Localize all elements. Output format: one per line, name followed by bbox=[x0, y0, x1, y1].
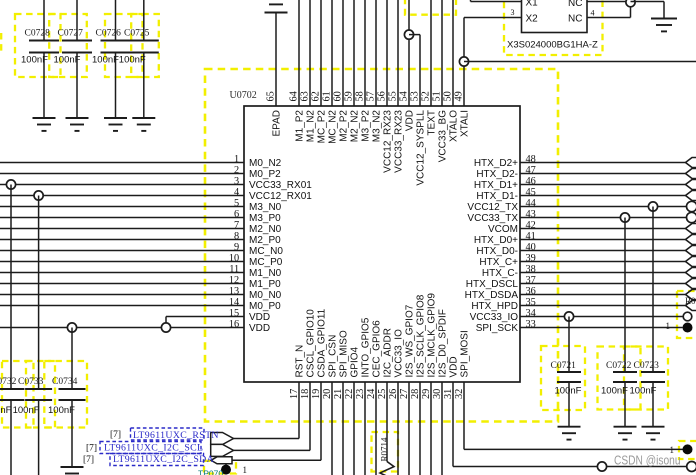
crystal pin label X1 bbox=[526, 0, 539, 8]
pin name M0_N0 (pin 13) bbox=[249, 290, 282, 301]
svg-text:1: 1 bbox=[243, 465, 248, 475]
svg-text:28: 28 bbox=[410, 389, 421, 399]
svg-text:M1_P0: M1_P0 bbox=[249, 279, 281, 290]
svg-text:I2S_SCLK_GPIO8: I2S_SCLK_GPIO8 bbox=[416, 294, 427, 377]
pin name M2_P2 (pin 60) bbox=[339, 110, 350, 142]
wire pin 12 M1_P0 bbox=[0, 283, 244, 285]
svg-text:4: 4 bbox=[591, 8, 595, 17]
svg-text:VCC12_TX: VCC12_TX bbox=[467, 202, 518, 213]
pin number 45 bbox=[526, 187, 536, 198]
svg-text:I2C_ADDR: I2C_ADDR bbox=[383, 328, 394, 377]
junction pin 54 VDD bbox=[404, 30, 413, 39]
wire pin 61 MC_N2 bbox=[331, 0, 333, 106]
pin number 11 bbox=[229, 264, 239, 275]
pin name VCC12_RX01 (pin 4) bbox=[249, 191, 312, 202]
junction VDD bottom bbox=[597, 462, 606, 471]
svg-text:M3_P0: M3_P0 bbox=[249, 213, 281, 224]
wire pin 19 CSDA_GPIO11 bbox=[233, 382, 322, 460]
svg-text:I2S_D0_SPDIF: I2S_D0_SPDIF bbox=[438, 309, 449, 377]
svg-text:M3_N2: M3_N2 bbox=[372, 110, 383, 143]
svg-text:C0732: C0732 bbox=[0, 377, 17, 387]
capacitor C0726 bbox=[96, 29, 131, 53]
junction pin15/pin16 VDD bbox=[161, 323, 170, 332]
crystal part label X3S024000BG1HA-Z bbox=[507, 40, 598, 51]
value label C0721 100nF bbox=[555, 386, 582, 397]
pin number 49 bbox=[454, 91, 465, 101]
pin number 37 bbox=[526, 275, 536, 286]
net box LT9611UXC_I2C_SDA bbox=[110, 454, 204, 466]
pin name VCC33_IO (pin 34) bbox=[470, 312, 519, 323]
value label C0725 100nF bbox=[119, 55, 146, 66]
group box testpoint right edge bbox=[679, 441, 696, 459]
svg-text:M2_N2: M2_N2 bbox=[350, 110, 361, 143]
svg-text:9: 9 bbox=[234, 242, 239, 253]
wire pin 40 HTX_D0- bbox=[520, 250, 686, 252]
svg-text:VCC12_SYSPLL: VCC12_SYSPLL bbox=[416, 110, 427, 186]
pin name HTX_D1- (pin 45) bbox=[476, 191, 518, 202]
crystal pin number 3 bbox=[511, 8, 515, 17]
group box resistor R07xx right edge bbox=[677, 291, 696, 338]
wire pin 47 HTX_D2- bbox=[520, 173, 686, 175]
svg-text:C0721: C0721 bbox=[551, 361, 577, 371]
value label C0723 100nF bbox=[630, 386, 657, 397]
svg-text:VDD: VDD bbox=[249, 312, 270, 323]
pin number 23 bbox=[355, 389, 366, 399]
wire pin 62 MC_P2 bbox=[320, 0, 322, 106]
svg-text:GPIO4: GPIO4 bbox=[350, 346, 361, 377]
pin name M0_P2 (pin 2) bbox=[249, 169, 281, 180]
pin number 51 bbox=[432, 91, 443, 101]
crystal X1 body bbox=[522, 0, 588, 33]
pin number 1 bbox=[234, 154, 239, 165]
svg-text:46: 46 bbox=[526, 176, 536, 187]
pin name HTX_DSDA (pin 36) bbox=[465, 290, 519, 301]
svg-text:100nF: 100nF bbox=[601, 386, 628, 397]
pin name XTALI (pin 49) bbox=[460, 110, 471, 137]
pin name SPI_CSN (pin 20) bbox=[328, 335, 339, 378]
wire pin 48 HTX_D2+ bbox=[520, 162, 686, 164]
svg-text:C0728: C0728 bbox=[25, 29, 51, 39]
wire pin 14 M0_P0 bbox=[0, 305, 244, 307]
svg-text:CSDA_GPIO11: CSDA_GPIO11 bbox=[317, 308, 328, 377]
svg-text:63: 63 bbox=[300, 91, 311, 101]
svg-text:45: 45 bbox=[526, 187, 536, 198]
ground symbol under C0725 bbox=[132, 118, 155, 131]
svg-text:SPI_CSN: SPI_CSN bbox=[328, 335, 339, 378]
off-page connector HTX_DSDA bbox=[686, 290, 696, 300]
svg-text:VDD: VDD bbox=[449, 356, 460, 377]
svg-text:HTX_DSCL: HTX_DSCL bbox=[466, 279, 519, 290]
svg-text:X1: X1 bbox=[526, 0, 539, 8]
pin name M3_N0 (pin 5) bbox=[249, 202, 282, 213]
svg-text:C0733: C0733 bbox=[18, 377, 44, 387]
net box LT9611UXC_I2C_SCL bbox=[100, 442, 201, 454]
pin name VDD (pin 16) bbox=[249, 323, 270, 334]
svg-text:26: 26 bbox=[388, 389, 399, 399]
svg-text:MC_N0: MC_N0 bbox=[249, 246, 283, 257]
pin number 55 bbox=[388, 91, 399, 101]
junction XTALI net bbox=[459, 57, 468, 66]
off-page connector VCOM bbox=[686, 224, 696, 234]
svg-text:SPI_SCK: SPI_SCK bbox=[476, 323, 519, 334]
pin number 21 bbox=[333, 389, 344, 399]
svg-text:LT9611UXC_I2C_SCL: LT9611UXC_I2C_SCL bbox=[104, 443, 203, 454]
wire pin 56 VCC12_RX23 bbox=[386, 0, 388, 106]
wire pin 24 CEC_GPIO6 bbox=[375, 382, 377, 475]
svg-text:65: 65 bbox=[266, 91, 277, 101]
off-page connector HTX_D2- bbox=[686, 169, 696, 179]
group box top-center power pins bbox=[405, 0, 456, 15]
svg-text:51: 51 bbox=[432, 91, 443, 101]
wire pin 28 I2S_SCLK_GPIO8 bbox=[419, 382, 421, 475]
wire pin 1 M0_N2 bbox=[0, 162, 244, 164]
wire pin 45 HTX_D1- bbox=[520, 195, 686, 197]
wire pin 41 HTX_D0+ bbox=[520, 239, 686, 241]
testpoint SPI_SCK pin 1 bbox=[666, 321, 671, 331]
svg-text:57: 57 bbox=[366, 91, 377, 101]
wire pin 29 I2S_MCLK_GPIO9 bbox=[430, 382, 432, 475]
svg-text:1: 1 bbox=[234, 154, 239, 165]
wire C0734 down bbox=[71, 400, 73, 467]
pin number 20 bbox=[322, 389, 333, 399]
pin number 35 bbox=[526, 297, 536, 308]
svg-text:27: 27 bbox=[399, 389, 410, 399]
pin number 12 bbox=[229, 275, 239, 286]
junction pin 16 VDD bbox=[67, 323, 76, 332]
pin name HTX_DSCL (pin 37) bbox=[466, 279, 519, 290]
svg-text:1: 1 bbox=[666, 321, 671, 331]
wire pin 3 VCC33_RX01 bbox=[0, 184, 244, 186]
wire pin 38 HTX_C- bbox=[520, 272, 686, 274]
svg-text:I2S_WS_GPIO7: I2S_WS_GPIO7 bbox=[405, 304, 416, 377]
capacitor C0727 bbox=[58, 29, 93, 53]
pin number 38 bbox=[526, 264, 536, 275]
pin name MC_P0 (pin 10) bbox=[249, 257, 283, 268]
pin name CSDA_GPIO11 (pin 19) bbox=[317, 308, 328, 377]
svg-text:61: 61 bbox=[322, 91, 333, 101]
svg-text:TP070: TP070 bbox=[198, 468, 223, 475]
pin name MC_N2 (pin 61) bbox=[328, 110, 339, 144]
pin name VCOM (pin 42) bbox=[488, 224, 518, 235]
svg-text:M1_P2: M1_P2 bbox=[295, 110, 306, 142]
wire pin 36 HTX_DSDA bbox=[520, 294, 686, 296]
pin name HTX_HPD (pin 35) bbox=[471, 301, 518, 312]
junction NC net bbox=[626, 0, 635, 7]
pin name SPI_MISO (pin 21) bbox=[339, 330, 350, 377]
pin number 36 bbox=[526, 286, 536, 297]
wire VCC33_TX to C0722 bbox=[624, 218, 626, 373]
wire pin 2 M0_P2 bbox=[0, 173, 244, 175]
svg-text:58: 58 bbox=[355, 91, 366, 101]
svg-text:M3_N0: M3_N0 bbox=[249, 202, 282, 213]
pin number 52 bbox=[421, 91, 432, 101]
pin name HTX_D0+ (pin 41) bbox=[474, 235, 518, 246]
wire to capacitor C0727 bbox=[76, 0, 78, 41]
svg-text:18: 18 bbox=[300, 389, 311, 399]
svg-text:HTX_D2+: HTX_D2+ bbox=[474, 158, 518, 169]
svg-text:55: 55 bbox=[388, 91, 399, 101]
value label C0722 100nF bbox=[601, 386, 628, 397]
svg-text:M2_N0: M2_N0 bbox=[249, 224, 282, 235]
pin name VCC33_RX01 (pin 3) bbox=[249, 180, 312, 191]
wire VDD to C0734 bbox=[71, 328, 73, 390]
pin number 60 bbox=[333, 91, 344, 101]
capacitor C0733 bbox=[18, 377, 52, 400]
off-page flag LT9611UXC_I2C_SCL bbox=[211, 444, 234, 456]
svg-text:41: 41 bbox=[526, 231, 536, 242]
svg-text:XTALO: XTALO bbox=[449, 110, 460, 142]
wire pin 46 HTX_D1+ bbox=[520, 184, 686, 186]
pin number 57 bbox=[366, 91, 377, 101]
pin number 53 bbox=[410, 91, 421, 101]
svg-text:3: 3 bbox=[511, 8, 515, 17]
wire VCC33_IO to C0721 bbox=[568, 317, 570, 373]
pin number 64 bbox=[289, 91, 300, 101]
wire C0721 to ground bbox=[568, 382, 570, 427]
pin number 4 bbox=[234, 187, 239, 198]
svg-text:59: 59 bbox=[344, 91, 355, 101]
testpoint TP070 pin 1 bbox=[243, 465, 248, 475]
wire pin 50 XTALO bbox=[452, 0, 454, 106]
wire pin 23 INTO_GPIO5 bbox=[364, 382, 366, 475]
wire pin 30 I2S_D0_SPDIF bbox=[441, 382, 443, 475]
wire pin 59 M2_N2 bbox=[353, 0, 355, 106]
group box bottom-left caps C0733 bbox=[26, 361, 55, 428]
pin number 50 bbox=[443, 91, 454, 101]
value label C0728 100nF bbox=[21, 55, 48, 66]
off-page connector HTX_DSCL bbox=[686, 279, 696, 289]
pin name M1_N2 (pin 63) bbox=[306, 110, 317, 143]
svg-text:42: 42 bbox=[526, 220, 536, 231]
svg-text:100nF: 100nF bbox=[119, 55, 146, 66]
wire pin 9 MC_N0 bbox=[0, 250, 244, 252]
svg-text:54: 54 bbox=[399, 91, 410, 101]
svg-text:100nF: 100nF bbox=[0, 405, 12, 416]
wire pin 4 VCC12_RX01 bbox=[0, 195, 244, 197]
off-page connector HTX_D2+ bbox=[686, 158, 696, 168]
svg-text:INTO_GPIO5: INTO_GPIO5 bbox=[361, 317, 372, 377]
off-page connector HTX_C+ bbox=[686, 257, 696, 267]
pin name VCC12_SYSPLL (pin 53) bbox=[416, 110, 427, 186]
sheet ref [7] SCL bbox=[86, 444, 97, 454]
pin name VDD (pin 54) bbox=[405, 110, 416, 131]
svg-text:49: 49 bbox=[454, 91, 465, 101]
pin number 10 bbox=[229, 253, 239, 264]
group box caps C0722 bbox=[598, 347, 641, 410]
svg-text:40: 40 bbox=[526, 242, 536, 253]
pin name M3_P2 (pin 58) bbox=[361, 110, 372, 142]
wire C0727 to ground bbox=[76, 53, 78, 119]
pin name MC_N0 (pin 9) bbox=[249, 246, 283, 257]
off-page flag LT9611UXC_I2C_SDA bbox=[211, 457, 232, 464]
svg-text:M1_N0: M1_N0 bbox=[249, 268, 282, 279]
ground symbol under C0726 bbox=[104, 118, 127, 131]
junction pin 43 VCC33_TX bbox=[620, 213, 629, 222]
off-page circle VDD bottom right bbox=[687, 462, 696, 472]
junction pin 34 VCC33_IO bbox=[564, 312, 573, 321]
svg-text:11: 11 bbox=[229, 264, 239, 275]
pin name M2_N2 (pin 59) bbox=[350, 110, 361, 143]
group box caps C0723 bbox=[624, 347, 668, 410]
off-page connector HTX_D1- bbox=[686, 191, 696, 201]
wire C0726 to ground bbox=[115, 53, 117, 119]
wire to capacitor C0725 bbox=[143, 0, 145, 41]
svg-text:NC: NC bbox=[568, 0, 582, 9]
pin name I2S_WS_GPIO7 (pin 27) bbox=[405, 304, 416, 377]
pin number 22 bbox=[344, 389, 355, 399]
testpoint SPI_MOSI pad bbox=[683, 444, 693, 454]
svg-text:C0726: C0726 bbox=[96, 29, 122, 39]
wire pin 20 SPI_CSN bbox=[331, 382, 333, 475]
wire XTALI off-page bbox=[464, 61, 696, 63]
capacitor C0722 bbox=[606, 361, 637, 382]
crystal pin label NC top bbox=[568, 0, 582, 9]
svg-text:100nF: 100nF bbox=[555, 386, 582, 397]
svg-text:VCC33_IO: VCC33_IO bbox=[470, 312, 519, 323]
pin name I2C_ADDR (pin 25) bbox=[383, 328, 394, 377]
resistor R07xx label right edge bbox=[685, 296, 696, 306]
wire pin 64 M1_P2 bbox=[298, 0, 300, 106]
crystal pin label NC bottom bbox=[568, 13, 582, 24]
svg-text:50: 50 bbox=[443, 91, 454, 101]
svg-text:VCC33_RX01: VCC33_RX01 bbox=[249, 180, 312, 191]
pin number 7 bbox=[234, 220, 239, 231]
group box cap C0721 bbox=[541, 346, 585, 410]
wire pin 11 M1_N0 bbox=[0, 272, 244, 274]
capacitor C0723 bbox=[634, 361, 666, 382]
pin number 15 bbox=[229, 308, 239, 319]
pin number 31 bbox=[443, 389, 454, 399]
svg-text:HTX_D0-: HTX_D0- bbox=[476, 246, 518, 257]
wire pin 32 SPI_MOSI bbox=[464, 382, 683, 449]
pin number 47 bbox=[526, 165, 536, 176]
svg-text:22: 22 bbox=[344, 389, 355, 399]
pin name M0_N2 (pin 1) bbox=[249, 158, 282, 169]
pin number 34 bbox=[526, 308, 536, 319]
capacitor C0721 bbox=[551, 361, 582, 382]
pin name HTX_D2- (pin 47) bbox=[476, 169, 518, 180]
svg-text:HTX_C+: HTX_C+ bbox=[479, 257, 518, 268]
wire X1 pin 1 bbox=[471, 0, 522, 2]
pin number 46 bbox=[526, 176, 536, 187]
pin name I2S_SCLK_GPIO8 (pin 28) bbox=[416, 294, 427, 377]
svg-text:HTX_D1-: HTX_D1- bbox=[476, 191, 518, 202]
wire pin 58 M3_P2 bbox=[364, 0, 366, 106]
svg-text:23: 23 bbox=[355, 389, 366, 399]
off-page circle pin 43 bbox=[687, 212, 696, 222]
pin name VDD (pin 15) bbox=[249, 312, 270, 323]
wire pin 15 VDD bbox=[166, 316, 244, 318]
pin number 54 bbox=[399, 91, 410, 101]
pin number 42 bbox=[526, 220, 536, 231]
capacitor C0725 bbox=[124, 29, 159, 53]
pin name M2_P0 (pin 8) bbox=[249, 235, 281, 246]
svg-text:25: 25 bbox=[377, 389, 388, 399]
svg-text:VDD: VDD bbox=[405, 110, 416, 131]
svg-text:C0723: C0723 bbox=[634, 361, 660, 371]
pin number 3 bbox=[234, 176, 239, 187]
svg-text:24: 24 bbox=[366, 389, 377, 399]
wire pin 52 TEXT bbox=[430, 0, 432, 106]
resistor R0714 bbox=[379, 437, 394, 475]
pin name HTX_D0- (pin 40) bbox=[476, 246, 518, 257]
wire VCC12_RX01 to C0733 bbox=[38, 196, 40, 390]
svg-text:CSDN @isonu: CSDN @isonu bbox=[614, 452, 681, 467]
pin name TEXT (pin 52) bbox=[427, 110, 438, 136]
group box around IC U0702 bbox=[205, 69, 558, 422]
pin name VCC33_IO (pin 26) bbox=[394, 329, 405, 378]
svg-text:15: 15 bbox=[229, 308, 239, 319]
svg-text:U0702: U0702 bbox=[230, 90, 257, 101]
group box bottom-left caps C0734 bbox=[44, 361, 87, 428]
wire C0728 to ground bbox=[43, 53, 45, 119]
pin name SPI_MOSI (pin 32) bbox=[460, 330, 471, 377]
off-page connector HTX_D0- bbox=[686, 246, 696, 256]
svg-text:100nF: 100nF bbox=[13, 405, 40, 416]
svg-text:13: 13 bbox=[229, 286, 239, 297]
svg-text:48: 48 bbox=[526, 154, 536, 165]
ground symbol under C0721 bbox=[558, 427, 581, 440]
pin number 63 bbox=[300, 91, 311, 101]
sheet ref [7] RSTN bbox=[110, 430, 121, 440]
pin number 41 bbox=[526, 231, 536, 242]
wire pin 33 SPI_SCK bbox=[520, 327, 683, 329]
wire pin 7 M2_N0 bbox=[0, 228, 244, 230]
wire pin 39 HTX_C+ bbox=[520, 261, 686, 263]
wire pin 13 M0_N0 bbox=[0, 294, 244, 296]
group box resistor R0714 bbox=[372, 432, 399, 472]
wire pin 54 VDD bbox=[408, 0, 410, 106]
wire pin 43 VCC33_TX bbox=[520, 217, 687, 219]
pin number 25 bbox=[377, 389, 388, 399]
pin number 27 bbox=[399, 389, 410, 399]
svg-text:LT9611UXC_I2C_SDA: LT9611UXC_I2C_SDA bbox=[113, 454, 214, 465]
wire pin 6 M3_P0 bbox=[0, 217, 244, 219]
resistor R07xx pin circle bbox=[683, 312, 692, 321]
svg-text:30: 30 bbox=[432, 389, 443, 399]
svg-text:7: 7 bbox=[234, 220, 239, 231]
wire pin 22 GPIO4 bbox=[353, 382, 355, 475]
testpoint TP070 wire bbox=[225, 464, 227, 470]
testpoint TP070 pad bbox=[221, 465, 231, 475]
svg-text:HTX_D1+: HTX_D1+ bbox=[474, 180, 518, 191]
pin name M1_P0 (pin 12) bbox=[249, 279, 281, 290]
ground symbol crystal bbox=[651, 19, 677, 32]
svg-text:35: 35 bbox=[526, 297, 536, 308]
svg-text:HTX_DSDA: HTX_DSDA bbox=[465, 290, 519, 301]
svg-text:[7]: [7] bbox=[86, 444, 97, 454]
testpoint TP070 label bbox=[198, 468, 223, 475]
svg-text:C0727: C0727 bbox=[58, 29, 84, 39]
wire pin 51 VCC33_BG bbox=[441, 0, 443, 106]
value label C0734 100nF bbox=[48, 405, 75, 416]
pin number 62 bbox=[311, 91, 322, 101]
capacitor C0728 bbox=[25, 29, 60, 53]
svg-text:VDD: VDD bbox=[249, 323, 270, 334]
svg-text:52: 52 bbox=[421, 91, 432, 101]
pin number 43 bbox=[526, 209, 536, 220]
svg-text:TEXT: TEXT bbox=[427, 110, 438, 136]
svg-text:17: 17 bbox=[289, 389, 300, 399]
off-page flag LT9611UXC_RSTN bbox=[211, 433, 234, 445]
wire pin 60 M2_P2 bbox=[342, 0, 344, 106]
svg-text:10: 10 bbox=[229, 253, 239, 264]
svg-text:100nF: 100nF bbox=[48, 405, 75, 416]
wire C0722 to ground bbox=[624, 382, 626, 427]
pin name VDD (pin 31) bbox=[449, 356, 460, 377]
ground symbol under C0727 bbox=[66, 118, 89, 131]
group box bottom-left caps C0732 bbox=[2, 361, 34, 428]
